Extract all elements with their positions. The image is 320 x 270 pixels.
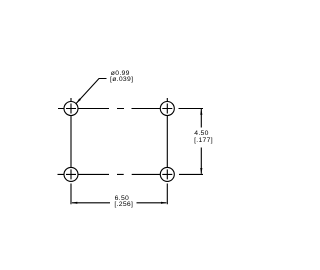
leader line for hole diameter callout <box>76 79 107 104</box>
hole H2 (top-right) <box>160 102 174 116</box>
centerline right column vertical <box>166 98 168 204</box>
label 4.50 dimension text <box>194 130 213 144</box>
label diameter callout text <box>110 70 133 83</box>
arrowhead 4.50 bottom <box>200 168 202 174</box>
dimension line 4.50 vertical <box>200 109 202 174</box>
arrowhead 6.50 left <box>71 202 77 204</box>
hole H3 (bottom-left) <box>64 167 78 181</box>
hole H1 (top-left) <box>64 102 78 116</box>
hole H4 (bottom-right) <box>160 167 174 181</box>
svg-text:[ø.039]: [ø.039] <box>110 76 133 83</box>
centerline top row horizontal <box>58 108 203 110</box>
arrowhead 6.50 right <box>161 202 167 204</box>
arrowhead leader <box>76 98 81 103</box>
centerline bottom row horizontal <box>58 173 204 175</box>
arrowhead 4.50 top <box>200 109 202 115</box>
label 6.50 dimension text <box>114 195 133 208</box>
dimension line 6.50 horizontal <box>72 202 166 204</box>
svg-text:[.256]: [.256] <box>114 201 133 208</box>
svg-text:[.177]: [.177] <box>194 137 213 144</box>
centerline left column vertical <box>70 98 72 204</box>
